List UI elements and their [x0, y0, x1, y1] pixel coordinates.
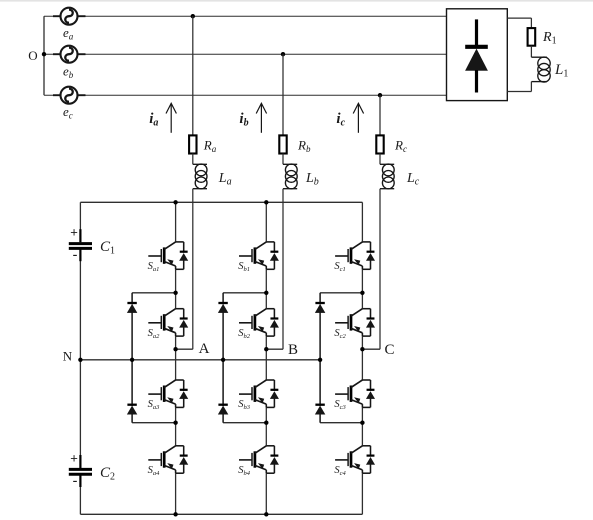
svg-text:+: + — [70, 225, 78, 240]
svg-text:B: B — [288, 342, 298, 358]
svg-text:A: A — [199, 341, 210, 357]
svg-text:C: C — [384, 342, 394, 358]
svg-text:-: - — [73, 247, 78, 264]
svg-text:N: N — [63, 349, 73, 364]
svg-text:O: O — [28, 48, 37, 63]
svg-text:+: + — [70, 451, 78, 466]
svg-text:-: - — [73, 473, 78, 490]
